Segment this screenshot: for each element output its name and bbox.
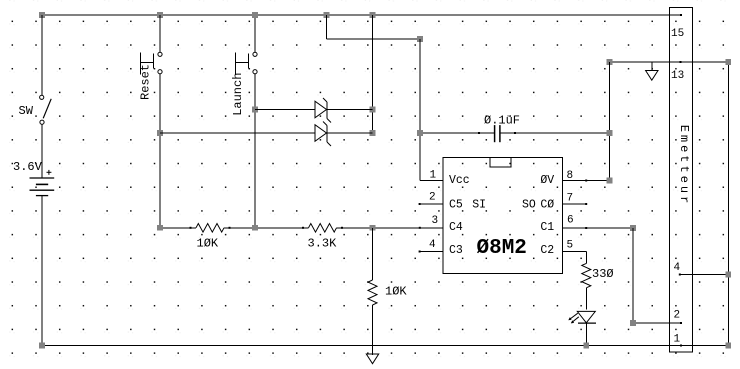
wire pin4 stub [420,251,443,253]
op-amp U1 PICAXE 08M2 [429,158,574,274]
svg-text:4: 4 [674,262,681,274]
wire pulldown to ground [372,305,374,355]
svg-text:Vcc: Vcc [449,174,470,187]
wire battery to bottom rail [41,196,43,346]
wire D2 anode [160,132,315,134]
junction [370,107,376,113]
resistor R4 330 [582,263,614,287]
wire 0V column [609,62,611,181]
junction [607,59,613,65]
wire 330 to LED [585,288,587,310]
wire D1 cathode [327,109,373,111]
wire LED to 0V rail [585,323,587,345]
diode D2 [315,122,331,147]
svg-text:C2: C2 [540,244,554,257]
capacitor C1 0.1uF [484,114,520,143]
wire to connector pin2 [633,322,682,324]
junction [607,178,613,184]
svg-text:8: 8 [567,170,574,182]
svg-text:7: 7 [567,193,574,205]
svg-text:Launch: Launch [231,73,245,116]
junction [324,12,330,18]
wire pin5 C2 stub [563,251,587,253]
svg-text:33Ø: 33Ø [592,267,614,281]
wire C2 down to 330 [585,252,587,264]
junction [370,12,376,18]
wire pin1 Vcc stub [420,180,443,182]
wire pulldown top lead [372,228,374,280]
junction [726,272,732,278]
svg-text:13: 13 [671,70,684,82]
wire pin2 stub [420,203,443,205]
wire Vcc column [419,39,421,181]
junction [157,130,163,136]
switch SW [19,95,52,124]
svg-text:2: 2 [674,310,681,322]
junction [630,320,636,326]
svg-text:3.6V: 3.6V [13,160,43,174]
wire Launch column lower [254,74,256,228]
wire pin7 stub [563,203,587,205]
wire Reset column lower [159,74,161,228]
junction [157,12,163,18]
LED D3 [568,311,596,323]
svg-text:Emetteur: Emetteur [677,125,691,207]
connector J1 Emetteur [670,8,693,352]
diode D1 [315,98,331,123]
wire Reset column upper [159,15,161,52]
wire cap right [500,132,609,134]
svg-text:Reset: Reset [139,64,153,100]
svg-text:4: 4 [429,239,436,251]
svg-text:C3: C3 [449,244,463,257]
svg-text:1: 1 [674,334,681,346]
svg-text:C5: C5 [449,198,463,211]
wire 10K left lead [160,227,196,229]
wire cap left [420,132,494,134]
svg-text:5: 5 [567,239,574,251]
junction [157,225,163,231]
svg-text:1ØK: 1ØK [197,237,219,251]
junction [370,225,376,231]
wire between resistors [224,227,309,229]
svg-text:1: 1 [430,170,437,182]
svg-text:Ø.1üF: Ø.1üF [484,114,520,128]
resistor R3 10K [368,280,407,305]
wire step down from top rail [326,15,328,39]
wire right vertical net [727,62,729,346]
wire switch to battery [41,124,43,178]
wire pin6 C1 row [563,227,633,229]
junction [39,12,45,18]
ground [366,346,378,364]
pushbutton Reset [139,52,162,100]
wire battery column upper [41,15,43,96]
junction [252,225,258,231]
junction [417,130,423,136]
junction [252,107,258,113]
junction [370,130,376,136]
junction [607,130,613,136]
junction [726,343,732,349]
wire top V+ rail [42,14,682,16]
svg-text:C4: C4 [449,221,463,234]
svg-text:C1: C1 [540,221,554,234]
svg-text:Ø8M2: Ø8M2 [477,237,527,260]
wire connector pin4 row [680,274,729,276]
wire bottom 0V rail [42,345,728,347]
wire pin13 row [610,61,729,63]
ground [646,62,658,80]
svg-text:3: 3 [432,215,439,227]
resistor R1 10K [196,224,224,251]
svg-text:1ØK: 1ØK [385,285,407,299]
wire C1 column down [632,228,634,323]
junction [39,343,45,349]
junction [726,59,732,65]
wire to pin3 C4 [337,227,444,229]
svg-text:SW: SW [19,104,34,118]
wire D1 anode [255,109,315,111]
wire pin8 0V stub [563,180,610,182]
wire step row [327,38,421,40]
battery BT1 3.6V [13,160,54,196]
svg-text:15: 15 [671,28,684,40]
svg-text:CØ: CØ [540,198,554,211]
svg-text:3.3K: 3.3K [308,237,338,251]
svg-text:2: 2 [429,192,436,204]
svg-text:ØV: ØV [540,174,554,187]
wire D2 cathode [327,132,373,134]
junction [252,12,258,18]
svg-text:SI: SI [472,198,486,211]
pushbutton Launch [231,52,257,116]
svg-text:SO: SO [522,198,536,211]
wire Launch column upper [254,15,256,52]
resistor R2 3.3K [308,224,338,251]
junction [417,36,423,42]
wire diode cathode column [372,15,374,133]
junction [630,225,636,231]
junction [584,343,590,349]
svg-text:6: 6 [567,214,574,226]
